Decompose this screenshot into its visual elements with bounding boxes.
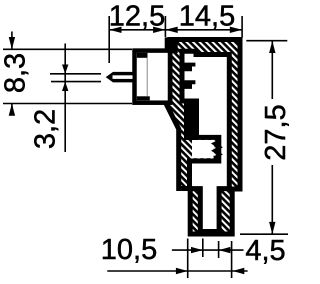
contact tab 2 [184, 80, 195, 89]
arrow 12,5 left [109, 27, 121, 33]
arrow 12,5 right [153, 27, 165, 33]
3,2 down arrow [62, 65, 68, 74]
10,5 dimension line [107, 270, 247, 272]
8,3 top extension line [3, 48, 132, 50]
10,5 right-pointing arrow [176, 268, 188, 274]
4,5 extension line channel right [218, 241, 220, 258]
valve connector body cross-section (hatched walls) [167, 40, 241, 235]
svg-text:10,5: 10,5 [101, 234, 157, 266]
svg-text:27,5: 27,5 [260, 104, 289, 160]
4,5 dimension line [172, 249, 244, 251]
27,5 bottom extension line [240, 233, 288, 235]
27,5 dimension line [271, 41, 273, 99]
4,5 extension line channel left [202, 239, 204, 258]
svg-text:14,5: 14,5 [179, 0, 235, 32]
3,2 dimension line [64, 44, 66, 153]
pin slot [113, 75, 133, 79]
4,5 extension line left [187, 239, 189, 279]
4,5 left outside arrow [191, 247, 203, 253]
4,5 right outside arrow [219, 247, 231, 253]
screw thread zigzag patch [192, 140, 214, 158]
27,5 top extension line [246, 40, 287, 42]
block top notch [137, 53, 148, 58]
4,5 extension line right [231, 241, 233, 278]
top dimension line [109, 29, 242, 31]
arrow 14,5 left [165, 27, 177, 33]
8,3 bottom extension line [3, 103, 132, 105]
27,5 down arrow [269, 222, 275, 234]
block inner face line [146, 58, 148, 97]
screw thread zigzag [214, 140, 221, 158]
10,5 left-pointing arrow [233, 268, 245, 274]
dimension 12,5 extension line A (pin tip) [108, 16, 110, 63]
8,3 bottom arrow [11, 104, 13, 116]
block bottom notch [137, 96, 150, 100]
dimension extension line C (body right) [241, 16, 243, 38]
svg-text:12,5: 12,5 [109, 0, 165, 32]
27,5 up arrow [269, 41, 275, 53]
dimension extension line B (body left) [164, 16, 166, 37]
pin bottom extension line [51, 81, 101, 83]
arrow 14,5 right [230, 27, 242, 33]
8,3 top arrow [11, 32, 13, 50]
svg-text:3,2: 3,2 [30, 109, 62, 149]
pin contact [106, 72, 133, 83]
contact tab 1 [184, 63, 195, 72]
svg-text:8,3: 8,3 [0, 53, 32, 93]
connector socket block [135, 51, 171, 103]
top bar left end [165, 37, 178, 53]
inner wall bar (solid black, left of screw channel) [184, 99, 199, 140]
pin top extension line [50, 73, 101, 75]
3,2 up arrow [62, 82, 68, 91]
svg-text:4,5: 4,5 [245, 235, 285, 267]
